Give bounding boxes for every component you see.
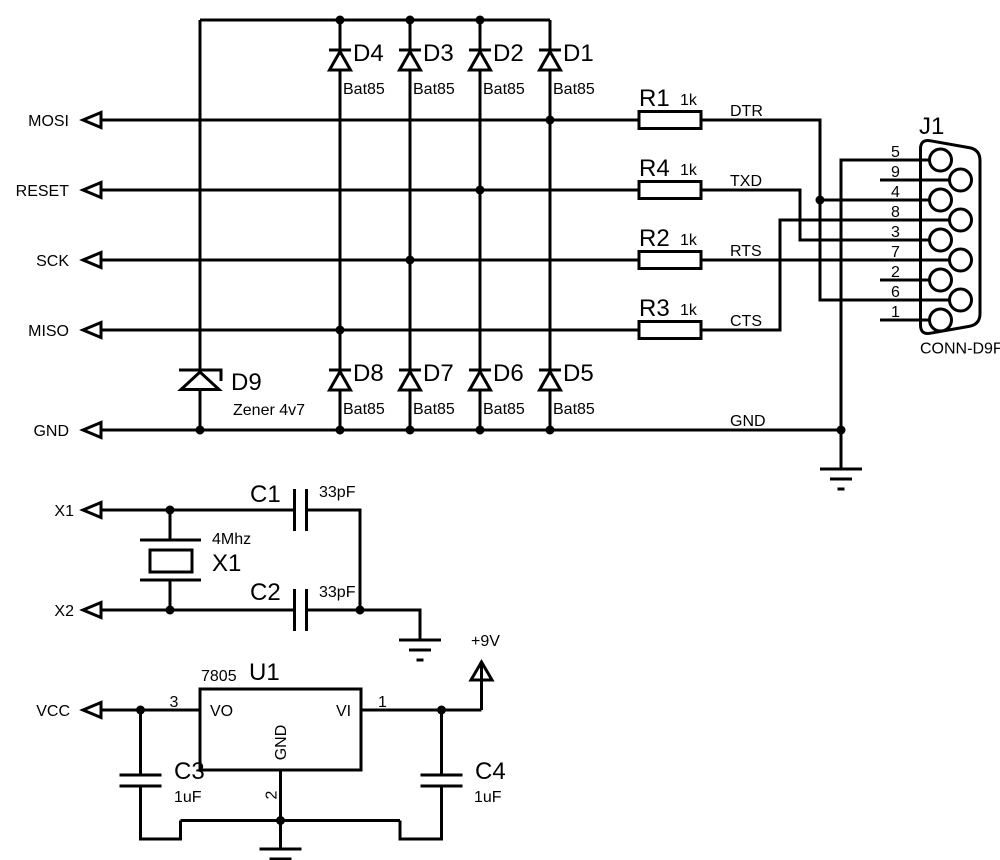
wire crystal top lead [169,510,172,540]
svg-text:1: 1 [891,304,900,321]
junction GND at D6 column [476,426,485,435]
svg-text:3: 3 [170,694,179,711]
wire MOSI row [101,119,639,122]
svg-text:D5: D5 [563,360,594,387]
svg-text:1k: 1k [680,232,698,249]
diode D3 [399,50,421,70]
svg-text:+9V: +9V [471,633,500,650]
capacitor C3 [120,775,162,786]
svg-text:D1: D1 [563,40,594,67]
svg-text:J1: J1 [919,113,944,140]
svg-text:1uF: 1uF [474,789,502,806]
junction GND at ground drop [837,426,846,435]
svg-text:33pF: 33pF [319,484,356,501]
wire column D1/D5 [549,20,552,430]
svg-text:VCC: VCC [36,703,70,720]
svg-text:Bat85: Bat85 [483,401,525,418]
svg-text:GND: GND [730,413,766,430]
wire column D4/D8 [339,20,342,430]
svg-text:D8: D8 [353,360,384,387]
wire trunk to zener D9 [199,20,202,370]
svg-text:1: 1 [378,694,387,711]
svg-text:Bat85: Bat85 [343,401,385,418]
junction top bus at D4 column [336,16,345,25]
svg-text:R4: R4 [639,155,670,182]
svg-text:7: 7 [891,244,900,261]
svg-text:33pF: 33pF [319,584,356,601]
wire RTS to pin 7 [701,259,950,262]
wire bottom bus [181,819,401,822]
junction VCC at C3 [136,706,145,715]
ground symbol right [820,469,862,489]
resistor R1 [639,112,701,129]
regulator U1 body [200,689,361,770]
wire GND row [101,429,841,432]
svg-text:VO: VO [210,703,233,720]
resistor R3 [639,322,701,339]
svg-text:Bat85: Bat85 [343,81,385,98]
svg-text:2: 2 [264,790,281,799]
svg-text:6: 6 [891,284,900,301]
connector J1 pin 4 hole [930,189,952,211]
wire VCC row [101,709,200,712]
junction GND at D8 column [336,426,345,435]
svg-text:7805: 7805 [201,668,237,685]
connector J1 pin 5 hole [930,149,952,171]
svg-text:D6: D6 [493,360,524,387]
svg-text:4: 4 [891,184,900,201]
svg-text:2: 2 [891,264,900,281]
connector J1 pin 6 hole [950,289,972,311]
svg-text:Bat85: Bat85 [553,81,595,98]
svg-text:C4: C4 [475,758,506,785]
port arrow X2 [83,603,101,618]
connector J1 pin 3 hole [930,229,952,251]
port arrow VCC [83,703,101,718]
port arrow MOSI [83,113,101,128]
svg-text:MISO: MISO [28,323,69,340]
svg-text:D3: D3 [423,40,454,67]
wire CTS to pin 8 [701,220,950,330]
svg-text:C1: C1 [250,481,281,508]
svg-text:X1: X1 [212,550,241,577]
wire TXD to pin 3 [701,190,930,240]
wire column D2/D6 [479,20,482,430]
connector J1 pin 1 hole [930,309,952,331]
wire U1 VI to +9V [361,709,482,712]
svg-text:TXD: TXD [730,173,762,190]
capacitor C2 [295,589,307,631]
wire MISO row [101,329,639,332]
svg-text:1k: 1k [680,302,698,319]
junction DTR at pin 4 branch [816,196,825,205]
capacitor C1 [295,489,307,531]
junction X1 at crystal [166,506,175,515]
wire pin 1 stub [880,319,930,322]
wire DTR to pin 6 [701,120,950,300]
svg-text:3: 3 [891,224,900,241]
svg-text:R3: R3 [639,295,670,322]
svg-text:9: 9 [891,164,900,181]
svg-text:D7: D7 [423,360,454,387]
svg-text:X2: X2 [54,603,74,620]
diode D8 [329,370,351,390]
wire X1 row [101,509,293,512]
wire C1 to node [307,510,361,610]
svg-text:D4: D4 [353,40,384,67]
wire GND to pin 5 [841,160,930,469]
svg-text:RTS: RTS [730,243,762,260]
svg-text:SCK: SCK [36,253,69,270]
wire SCK row [101,259,639,262]
wire RESET row [101,189,639,192]
port arrow RESET [83,183,101,198]
svg-text:Bat85: Bat85 [483,81,525,98]
diode D5 [539,370,561,390]
svg-text:VI: VI [336,703,351,720]
wire bus to ground [279,821,282,850]
capacitor C4 [421,775,463,786]
junction RESET at D2 column [476,186,485,195]
resistor R2 [639,252,701,269]
svg-text:8: 8 [891,204,900,221]
port arrow SCK [83,253,101,268]
zener diode D9 [179,370,221,430]
svg-text:R2: R2 [639,225,670,252]
svg-text:GND: GND [33,423,69,440]
diode D2 [469,50,491,70]
svg-text:CTS: CTS [730,313,762,330]
junction top bus at D3 column [406,16,415,25]
diode D7 [399,370,421,390]
wire C4 top lead [440,710,443,775]
svg-text:1uF: 1uF [174,789,202,806]
power symbol +9V [471,662,492,710]
wire pin 9 stub [880,179,950,182]
junction GND at D7 column [406,426,415,435]
svg-text:1k: 1k [680,92,698,109]
crystal X1 [140,540,201,580]
wire top bus [200,19,550,22]
svg-text:Bat85: Bat85 [553,401,595,418]
svg-text:D2: D2 [493,40,524,67]
wire column D3/D7 [409,20,412,430]
connector J1 pin 2 hole [930,269,952,291]
connector J1 outline [921,141,981,334]
junction GND at trunk [196,426,205,435]
port arrow GND [83,423,101,438]
wire C3 top lead [139,710,142,775]
ground symbol bottom [260,849,302,860]
junction MISO at D4 column [336,326,345,335]
junction bottom bus at U1 GND [276,816,285,825]
svg-text:1k: 1k [680,162,698,179]
svg-text:MOSI: MOSI [28,113,69,130]
wire C3 to bottom bus [141,786,181,839]
wire X2 row [101,609,293,612]
connector J1 pin 7 hole [950,249,972,271]
svg-text:4Mhz: 4Mhz [212,531,251,548]
svg-text:5: 5 [891,144,900,161]
junction C1/C2 node [356,606,365,615]
svg-text:Bat85: Bat85 [413,81,455,98]
ground symbol crystal [399,640,441,660]
svg-text:X1: X1 [54,503,74,520]
wire U1 GND pin [279,770,282,821]
svg-text:Bat85: Bat85 [413,401,455,418]
diode D1 [539,50,561,70]
junction GND at D5 column [546,426,555,435]
connector J1 pin 8 hole [950,209,972,231]
svg-text:C2: C2 [250,579,281,606]
junction X2 at crystal [166,606,175,615]
junction top bus at D2 column [476,16,485,25]
junction SCK at D3 column [406,256,415,265]
connector J1 pin 9 hole [950,169,972,191]
wire C2 to ground [307,610,421,640]
port arrow X1 [83,503,101,518]
svg-text:DTR: DTR [730,103,763,120]
svg-text:Zener 4v7: Zener 4v7 [233,402,305,419]
resistor R4 [639,182,701,199]
junction MOSI at D1 column [546,116,555,125]
wire pin 4 branch [820,199,930,202]
svg-text:D9: D9 [231,369,262,396]
diode D4 [329,50,351,70]
port arrow MISO [83,323,101,338]
svg-text:R1: R1 [639,85,670,112]
svg-text:GND: GND [273,725,290,761]
wire crystal bottom lead [169,580,172,610]
wire C4 to bottom bus [400,786,442,839]
wire pin 2 stub [880,279,930,282]
svg-text:RESET: RESET [16,183,70,200]
diode D6 [469,370,491,390]
svg-text:U1: U1 [249,659,280,686]
svg-text:C3: C3 [174,758,205,785]
svg-text:CONN-D9F: CONN-D9F [920,341,1000,358]
junction VI at C4 [437,706,446,715]
